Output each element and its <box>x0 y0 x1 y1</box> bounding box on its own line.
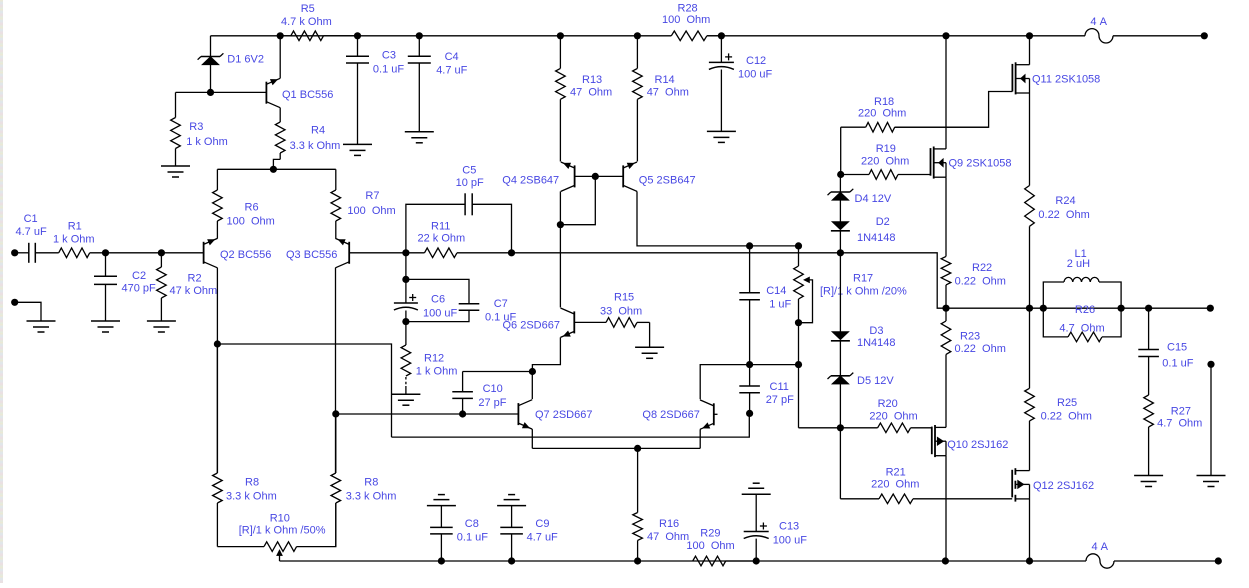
resistor R8 right <box>331 414 396 547</box>
svg-text:R13: R13 <box>582 74 602 86</box>
svg-text:22 k Ohm: 22 k Ohm <box>418 233 466 245</box>
wire Q12 source down <box>1029 499 1031 561</box>
wire base row Q1 <box>176 91 267 93</box>
transistor Q4 <box>502 162 574 191</box>
wire C4 top lead <box>418 36 420 57</box>
wire Q9 drain up <box>945 36 947 149</box>
wire emitter row B <box>532 447 700 449</box>
terminal V- end <box>1215 557 1222 564</box>
transistor Q5 <box>623 162 695 191</box>
wire D4 top lead <box>839 175 841 193</box>
wire Q11 drain up <box>1029 36 1031 65</box>
inductor L1 <box>1043 248 1121 308</box>
svg-text:4.7 k Ohm: 4.7 k Ohm <box>281 16 332 28</box>
wire Q4 collector down <box>559 225 561 308</box>
ground C4 <box>405 132 434 143</box>
resistor R18 <box>841 96 989 132</box>
node C14 top <box>746 242 753 249</box>
potentiometer R17 <box>794 246 907 365</box>
terminal V+ end <box>1201 32 1208 39</box>
capacitor C2 <box>94 270 156 294</box>
svg-text:100 uF: 100 uF <box>773 535 808 547</box>
svg-text:R19: R19 <box>876 143 896 155</box>
node R19/D4 <box>837 171 844 178</box>
svg-text:R5: R5 <box>301 3 315 15</box>
svg-text:C7: C7 <box>494 298 508 310</box>
wire Q7 emitter down <box>531 429 533 448</box>
svg-text:R8: R8 <box>364 477 378 489</box>
svg-text:0.1 uF: 0.1 uF <box>1162 358 1193 370</box>
wire R17 row to R20 <box>798 365 800 428</box>
wire Q8 collector up <box>700 365 749 400</box>
wire Q4 collector <box>559 191 561 224</box>
resistor R12 <box>401 322 457 395</box>
svg-text:C5: C5 <box>462 164 476 176</box>
svg-text:D5 12V: D5 12V <box>857 375 894 387</box>
ground input <box>27 321 56 332</box>
svg-text:47 Ohm: 47 Ohm <box>647 87 689 99</box>
svg-text:4.7 uF: 4.7 uF <box>16 226 47 238</box>
junction on top rail <box>557 32 564 39</box>
wire Q8 emitter down <box>699 429 701 448</box>
svg-text:R6: R6 <box>245 202 259 214</box>
svg-text:100 Ohm: 100 Ohm <box>662 14 710 26</box>
svg-text:R12: R12 <box>424 353 444 365</box>
MOSFET Q10 2SJ162 <box>932 425 1009 457</box>
capacitor C6 <box>394 294 458 320</box>
junction on bottom rail <box>508 557 515 564</box>
resistor R16 <box>633 448 689 561</box>
node base tie <box>592 173 599 180</box>
resistor R25 <box>1025 308 1092 422</box>
wire C6 leads <box>405 279 407 303</box>
junction on bottom rail <box>634 557 641 564</box>
svg-text:Q6 2SD667: Q6 2SD667 <box>503 320 560 332</box>
transistor Q2 <box>204 238 272 267</box>
node R4/R6/R7 <box>270 166 277 173</box>
svg-text:R1: R1 <box>68 221 82 233</box>
svg-text:D2: D2 <box>876 216 890 228</box>
capacitor C3 <box>346 49 404 75</box>
wire C10 row <box>463 371 533 373</box>
svg-text:D4 12V: D4 12V <box>855 193 892 205</box>
svg-text:1 k Ohm: 1 k Ohm <box>53 234 95 246</box>
svg-text:R15: R15 <box>614 292 634 304</box>
resistor R3 <box>171 92 228 166</box>
svg-text:4.7 uF: 4.7 uF <box>436 64 467 76</box>
power bar C13 <box>742 483 771 494</box>
wire top rail mid <box>707 35 1085 37</box>
svg-text:[R]/1 k Ohm /50%: [R]/1 k Ohm /50% <box>239 525 326 537</box>
ground C2 <box>91 321 120 332</box>
capacitor C8 <box>430 506 488 561</box>
svg-text:1 k Ohm: 1 k Ohm <box>416 366 458 378</box>
node Q3 collector row <box>332 410 339 417</box>
resistor R15 <box>574 292 649 328</box>
junction on top rail <box>416 32 423 39</box>
node output R22 <box>942 305 949 312</box>
node C6 bottom <box>402 318 409 325</box>
node R20/D5 <box>837 424 844 431</box>
svg-text:C1: C1 <box>24 213 38 225</box>
wire Q9 source down <box>945 177 947 256</box>
wire D3-D5 <box>839 341 841 376</box>
MOSFET Q11 2SK1058 <box>1012 62 1100 94</box>
svg-text:C2: C2 <box>132 270 146 282</box>
svg-text:R24: R24 <box>1055 195 1075 207</box>
zener diode D4 <box>828 189 892 205</box>
junction on top rail <box>942 32 949 39</box>
svg-text:R4: R4 <box>311 125 325 137</box>
wire Q10 drain up <box>945 354 947 427</box>
wire Q11 source down <box>1029 93 1031 186</box>
svg-text:C12: C12 <box>746 55 766 67</box>
wire R10 to R8R <box>297 503 336 547</box>
wire Q5 collector down <box>637 191 750 246</box>
transistor Q6 <box>503 308 575 337</box>
svg-text:220 Ohm: 220 Ohm <box>861 156 909 168</box>
diode D2 <box>831 216 896 244</box>
node mid row diode chain <box>837 249 844 256</box>
svg-text:R20: R20 <box>878 398 898 410</box>
wire C13 bottom <box>755 539 757 561</box>
wire mid row long <box>512 252 841 254</box>
node C15 top <box>1145 305 1152 312</box>
wire row A <box>392 413 750 437</box>
node C10 bottom <box>459 410 466 417</box>
svg-text:47 Ohm: 47 Ohm <box>570 87 612 99</box>
svg-text:100 uF: 100 uF <box>423 308 458 320</box>
svg-text:R2: R2 <box>188 273 202 285</box>
wire R15 to ground <box>649 322 651 347</box>
svg-text:R28: R28 <box>678 2 698 14</box>
svg-text:470 pF: 470 pF <box>122 282 157 294</box>
svg-text:Q11 2SK1058: Q11 2SK1058 <box>1032 74 1100 86</box>
svg-text:1N4148: 1N4148 <box>857 232 896 244</box>
svg-text:10 pF: 10 pF <box>456 177 484 189</box>
resistor R22 <box>941 256 1006 308</box>
wire C14 row <box>750 245 799 247</box>
svg-text:1 uF: 1 uF <box>769 299 791 311</box>
node Q4 collector <box>557 221 564 228</box>
junction on bottom rail <box>1026 557 1033 564</box>
wire rail to D1 <box>210 36 212 57</box>
capacitor C5 <box>406 164 512 252</box>
node R17 wiper <box>795 319 802 326</box>
ground C12 <box>707 131 736 142</box>
wire Q4-Q5 base tie <box>575 175 624 177</box>
node L1 left <box>1040 305 1047 312</box>
wire Q6 emitter down <box>532 337 560 371</box>
svg-text:R23: R23 <box>960 331 980 343</box>
wire C3 top lead <box>357 36 359 57</box>
svg-text:33 Ohm: 33 Ohm <box>600 306 642 318</box>
wire top rail right <box>1113 35 1204 37</box>
wire base tie down <box>560 176 595 224</box>
wire Q1 emitter to rail <box>279 36 281 79</box>
capacitor C13 <box>744 521 808 547</box>
capacitor C12 <box>709 53 773 80</box>
wire Q7 collector up <box>531 372 533 400</box>
node C11 top <box>746 361 753 368</box>
transistor Q7 <box>518 400 592 429</box>
node L1 right <box>1118 305 1125 312</box>
ground R3 <box>161 166 190 177</box>
svg-text:0.22 Ohm: 0.22 Ohm <box>1041 411 1092 423</box>
fuse F1 4 A <box>1085 16 1113 43</box>
wire D5 to R20 row <box>839 384 841 428</box>
resistor R2 <box>157 253 218 321</box>
resistor R26 <box>1043 304 1121 342</box>
junction on top rail <box>277 32 284 39</box>
svg-text:R22: R22 <box>972 262 992 274</box>
svg-text:4 A: 4 A <box>1092 541 1109 553</box>
wire Q10 source down <box>945 456 947 561</box>
svg-text:3.3 k Ohm: 3.3 k Ohm <box>346 491 397 503</box>
resistor R23 <box>941 308 1006 355</box>
wire R8L to R10 <box>217 546 264 548</box>
svg-text:100 Ohm: 100 Ohm <box>686 540 734 552</box>
zener diode D1 <box>198 53 264 65</box>
svg-text:C8: C8 <box>465 518 479 530</box>
transistor Q1 <box>266 78 333 107</box>
wire D1 to base row <box>210 65 212 93</box>
resistor R13 <box>556 36 613 162</box>
capacitor C7 <box>406 279 517 323</box>
resistor R7 <box>331 169 396 238</box>
node R17 bottom row <box>795 361 802 368</box>
capacitor C14 <box>739 246 791 365</box>
wire bottom rail left <box>280 560 1087 562</box>
wire mid row to D3 <box>839 253 841 332</box>
ground C3 <box>343 144 372 155</box>
svg-text:2 uH: 2 uH <box>1067 258 1090 270</box>
capacitor C11 <box>739 365 794 414</box>
svg-text:Q9 2SK1058: Q9 2SK1058 <box>949 158 1012 170</box>
svg-text:4.7 uF: 4.7 uF <box>527 532 558 544</box>
svg-text:C11: C11 <box>770 381 789 393</box>
svg-text:R29: R29 <box>700 527 720 539</box>
svg-text:R18: R18 <box>874 96 894 108</box>
svg-text:3.3 k Ohm: 3.3 k Ohm <box>290 140 341 152</box>
node R16 top <box>634 445 641 452</box>
svg-text:Q2 BC556: Q2 BC556 <box>220 249 271 261</box>
wire C6 bottom <box>405 311 407 322</box>
resistor R24 <box>1025 186 1090 309</box>
power bar C9 <box>497 495 526 506</box>
wire Q7 base row <box>336 413 519 415</box>
wire Q11 gate route <box>895 92 1013 128</box>
svg-text:4.7 Ohm: 4.7 Ohm <box>1157 418 1202 430</box>
svg-text:27 pF: 27 pF <box>766 394 794 406</box>
node Q2 collector row <box>214 340 221 347</box>
resistor R5 <box>280 3 357 41</box>
wire bottom rail right <box>1114 560 1218 562</box>
resistor R20 <box>799 398 932 433</box>
wire mid row to R22 bottom <box>840 253 946 308</box>
svg-text:D3: D3 <box>869 325 883 337</box>
resistor R29 <box>686 527 756 565</box>
svg-text:R17: R17 <box>853 272 873 284</box>
svg-text:47 k Ohm: 47 k Ohm <box>170 285 218 297</box>
wire input to C1 <box>18 252 29 254</box>
wire top rail left <box>211 35 672 37</box>
wire C13 top <box>755 494 757 531</box>
ground output <box>1197 476 1226 487</box>
svg-text:Q4 2SB647: Q4 2SB647 <box>502 174 559 186</box>
potentiometer R10 <box>239 513 326 562</box>
wire R20-R21 corner <box>839 428 841 499</box>
wire C6 top lead <box>405 253 407 280</box>
svg-text:R27: R27 <box>1171 406 1191 418</box>
svg-text:R21: R21 <box>886 467 906 479</box>
resistor R8 left <box>213 344 277 547</box>
svg-text:Q7 2SD667: Q7 2SD667 <box>535 409 592 421</box>
svg-text:Q8 2SD667: Q8 2SD667 <box>642 409 699 421</box>
node R2 tap <box>158 249 165 256</box>
MOSFET Q9 2SK1058 <box>931 147 1012 179</box>
ground R12 <box>391 394 420 405</box>
svg-text:1N4148: 1N4148 <box>857 337 896 349</box>
svg-text:R25: R25 <box>1057 397 1077 409</box>
resistor R28 <box>662 2 721 40</box>
svg-text:R26: R26 <box>1075 304 1095 316</box>
wire C4 to ground <box>418 63 420 132</box>
svg-text:Q12 2SJ162: Q12 2SJ162 <box>1033 480 1094 492</box>
svg-text:C15: C15 <box>1167 342 1187 354</box>
capacitor C15 <box>1138 308 1193 369</box>
svg-text:4 A: 4 A <box>1090 16 1107 28</box>
svg-text:Q5 2SB647: Q5 2SB647 <box>639 174 696 186</box>
svg-text:0.22 Ohm: 0.22 Ohm <box>955 276 1006 288</box>
wire R6-R7 feed row <box>217 168 335 170</box>
terminal output+ <box>1207 305 1214 312</box>
node C2 tap <box>102 249 109 256</box>
svg-text:R10: R10 <box>270 513 290 525</box>
svg-text:1 k Ohm: 1 k Ohm <box>186 136 228 148</box>
wire C14/C11 row <box>750 364 799 366</box>
svg-text:3.3 k Ohm: 3.3 k Ohm <box>226 491 277 503</box>
wire D2 to mid row <box>839 231 841 253</box>
wire Q3 base row <box>349 252 406 254</box>
junction on bottom rail <box>753 557 760 564</box>
svg-text:C3: C3 <box>382 49 396 61</box>
svg-text:220 Ohm: 220 Ohm <box>858 108 906 120</box>
junction on bottom rail <box>942 557 949 564</box>
wire Q3 collector down <box>335 268 337 473</box>
svg-text:R7: R7 <box>365 190 379 202</box>
wire input return <box>18 302 41 321</box>
resistor R27 <box>1144 357 1203 476</box>
svg-text:27 pF: 27 pF <box>478 397 506 409</box>
junction on top rail <box>354 32 361 39</box>
svg-text:R16: R16 <box>659 518 679 530</box>
wire C12 bottom <box>720 70 722 132</box>
svg-text:220 Ohm: 220 Ohm <box>869 411 917 423</box>
MOSFET Q12 2SJ162 <box>1012 468 1094 501</box>
svg-text:0.22 Ohm: 0.22 Ohm <box>955 343 1006 355</box>
node D1/R3/Q1 base <box>207 89 214 96</box>
wire Q12 drain up <box>1029 421 1031 471</box>
svg-text:220 Ohm: 220 Ohm <box>871 479 919 491</box>
fuse F2 4 A <box>1086 541 1114 568</box>
wire Q2 collector down <box>216 268 218 473</box>
svg-text:100 Ohm: 100 Ohm <box>227 216 275 228</box>
wire output row <box>946 307 1210 309</box>
zener diode D5 <box>828 373 895 387</box>
svg-text:47 Ohm: 47 Ohm <box>647 531 689 543</box>
svg-text:4.7 Ohm: 4.7 Ohm <box>1059 323 1104 335</box>
svg-text:C6: C6 <box>431 294 445 306</box>
diode D3 <box>831 325 896 349</box>
svg-text:0.1 uF: 0.1 uF <box>457 532 488 544</box>
node output R24 <box>1026 305 1033 312</box>
capacitor C1 <box>16 213 47 263</box>
wire C12 top <box>720 36 722 63</box>
resistor R6 <box>213 169 275 238</box>
wire C2 lead <box>105 253 107 276</box>
wire R18 corner <box>840 127 842 174</box>
ground R27 <box>1134 476 1163 487</box>
terminal output- <box>1207 361 1214 368</box>
node C11 bottom <box>746 410 753 417</box>
svg-text:R11: R11 <box>431 220 450 232</box>
ground R2 <box>147 321 176 332</box>
svg-text:D1 6V2: D1 6V2 <box>227 54 264 66</box>
ground R15 <box>635 347 664 358</box>
svg-text:R8: R8 <box>245 477 259 489</box>
wire output- to ground <box>1210 364 1212 475</box>
svg-text:C4: C4 <box>445 51 459 63</box>
resistor R21 <box>840 467 1012 504</box>
junction on bottom rail <box>438 557 445 564</box>
resistor R11 <box>406 220 512 257</box>
transistor Q8 <box>642 400 713 429</box>
node Q3 base / C5 / C6 <box>402 249 409 256</box>
svg-text:C9: C9 <box>535 518 549 530</box>
wire Q2 collector row <box>217 344 391 437</box>
svg-text:Q10 2SJ162: Q10 2SJ162 <box>947 439 1008 451</box>
resistor R14 <box>633 36 689 162</box>
node C10 row <box>529 368 536 375</box>
transistor Q3 <box>286 238 349 267</box>
wire R4 jog <box>273 159 280 169</box>
junction on top rail <box>1026 32 1033 39</box>
node C6 top <box>402 276 409 283</box>
svg-text:0.1 uF: 0.1 uF <box>373 63 404 75</box>
svg-text:100 Ohm: 100 Ohm <box>347 205 395 217</box>
node R17 top <box>795 242 802 249</box>
svg-text:C14: C14 <box>766 285 786 297</box>
node R11 right <box>508 249 515 256</box>
terminal input <box>11 249 18 256</box>
wire C2 to ground <box>105 284 107 321</box>
svg-text:0.22 Ohm: 0.22 Ohm <box>1038 209 1089 221</box>
capacitor C9 <box>500 506 558 561</box>
svg-text:C10: C10 <box>483 383 503 395</box>
svg-text:R14: R14 <box>655 74 675 86</box>
svg-text:C13: C13 <box>779 521 799 533</box>
wire C3 to ground <box>357 63 359 144</box>
svg-text:[R]/1 k Ohm /20%: [R]/1 k Ohm /20% <box>820 286 907 298</box>
svg-text:R3: R3 <box>189 121 203 133</box>
resistor R19 <box>841 143 931 179</box>
svg-text:Q1 BC556: Q1 BC556 <box>282 89 333 101</box>
svg-text:Q3 BC556: Q3 BC556 <box>286 249 337 261</box>
wire Q8 base stub <box>714 413 718 415</box>
junction on top rail <box>634 32 641 39</box>
junction on top rail <box>718 32 725 39</box>
